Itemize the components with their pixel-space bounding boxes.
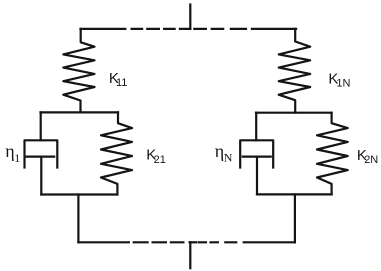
svg-text:1N: 1N (336, 77, 350, 89)
svg-text:21: 21 (154, 154, 166, 166)
svg-text:2N: 2N (364, 154, 378, 166)
svg-text:1: 1 (14, 151, 20, 165)
svg-text:11: 11 (116, 77, 127, 89)
svg-text:N: N (224, 151, 233, 165)
